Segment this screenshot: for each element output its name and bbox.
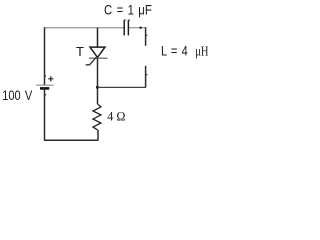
svg-text:100 V: 100 V: [2, 87, 33, 103]
thyristor cathode lead wire: [97, 58, 99, 87]
battery plus sign: [48, 76, 53, 81]
battery V1 short plate: [40, 87, 49, 90]
thyristor T triangle: [90, 47, 105, 57]
inductor top terminal tick: [146, 34, 148, 36]
svg-text:C = 1 μF: C = 1 μF: [104, 2, 152, 18]
wire right vertical upper (capacitor corner down to inductor top): [145, 27, 147, 46]
wire bottom: [44, 139, 98, 141]
inductor bottom terminal tick: [146, 74, 148, 76]
wire top left (source to capacitor left plate): [45, 27, 125, 29]
svg-text:4 Ω: 4 Ω: [107, 108, 125, 123]
capacitor C1 plates: [124, 20, 128, 35]
wire left vertical upper: [44, 27, 46, 85]
tick on wire above battery: [45, 75, 47, 77]
junction node dot: [96, 86, 99, 89]
wire middle horizontal (node to inductor branch): [98, 86, 147, 88]
wire right vertical lower (inductor bottom to mid wire): [145, 66, 147, 88]
wire top right (capacitor right plate to top-right corner): [129, 27, 146, 29]
thyristor T gate lead: [86, 57, 97, 65]
capacitor plate top hooks: [124, 19, 130, 22]
svg-text:L = 4: L = 4: [161, 43, 188, 59]
resistor R1 bottom lead: [97, 130, 99, 140]
resistor R1 zigzag: [93, 104, 101, 130]
node dot on top wire: [139, 27, 141, 29]
svg-text:T: T: [76, 44, 84, 59]
wire left vertical lower: [44, 88, 46, 140]
thyristor T cathode bar: [89, 57, 108, 59]
battery V1 long plate: [36, 84, 53, 86]
svg-text:μH: μH: [195, 45, 208, 60]
thyristor T anode lead: [97, 28, 99, 47]
tick on wire below battery: [45, 94, 47, 96]
resistor R1 top lead: [97, 87, 99, 104]
